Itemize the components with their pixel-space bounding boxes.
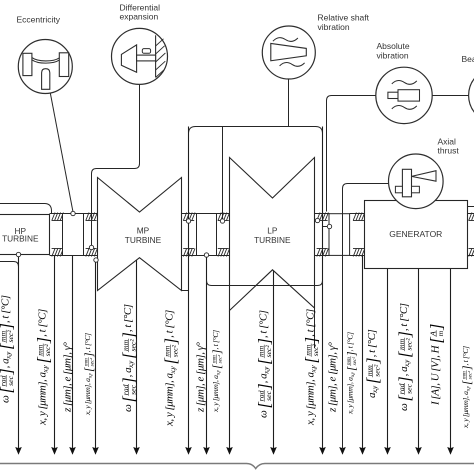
svg-text:Eccentricity: Eccentricity [17, 15, 61, 25]
sensor relative shaft vibration [262, 26, 315, 79]
svg-text:, t [°C]: , t [°C] [211, 330, 220, 350]
svg-text:]: ] [395, 376, 414, 383]
svg-text:z [μm], e [μm], γ°: z [μm], e [μm], γ° [195, 341, 207, 413]
svg-text:]: ] [255, 338, 274, 345]
svg-text:]: ] [0, 323, 16, 330]
MP turbine [98, 178, 182, 291]
svg-text:]: ] [0, 368, 16, 375]
svg-text:x,y: x,y [351, 371, 356, 378]
svg-text:, t [°C]: , t [°C] [258, 310, 270, 338]
wire shaft [350, 213, 365, 215]
svg-text:x,y: x,y [42, 365, 50, 374]
wire [189, 127, 323, 134]
svg-text:TURBINE: TURBINE [125, 235, 162, 245]
svg-text:sec: sec [405, 383, 414, 393]
bearing [86, 213, 98, 221]
node [16, 252, 20, 256]
svg-text:Relative shaft: Relative shaft [318, 12, 370, 22]
svg-text:]: ] [34, 337, 53, 344]
bearing [183, 213, 195, 221]
svg-text:x, y [μmm], a: x, y [μmm], a [211, 375, 220, 413]
svg-text:Bearing: Bearing [462, 54, 474, 64]
wire signal arrow [362, 255, 364, 450]
svg-text:]: ] [395, 331, 414, 338]
svg-text:x,y: x,y [127, 360, 135, 369]
svg-text:sec²: sec² [43, 343, 52, 356]
svg-text:[: [ [211, 364, 223, 369]
svg-text:ω: ω [398, 403, 410, 411]
svg-text:x, y [μmm], a: x, y [μmm], a [305, 372, 317, 426]
wire shaft [468, 213, 474, 215]
svg-text:TURBINE: TURBINE [254, 235, 291, 245]
LP turbine [230, 158, 315, 311]
svg-text:]: ] [161, 338, 180, 345]
node [315, 218, 319, 222]
svg-text:sec²: sec² [264, 345, 273, 358]
sensor differential expansion [112, 28, 168, 84]
svg-text:x, y [μmm], a: x, y [μmm], a [83, 378, 92, 416]
svg-text:]: ] [427, 324, 446, 331]
svg-text:[: [ [83, 367, 95, 372]
svg-text:x,y: x,y [5, 351, 13, 360]
sensor axial thrust [389, 154, 444, 209]
wire signal arrow [188, 127, 190, 451]
wire signal arrow [206, 255, 208, 450]
svg-text:, t [°C]: , t [°C] [164, 310, 176, 338]
svg-text:ω: ω [0, 395, 12, 403]
wire signal arrow [418, 269, 420, 451]
svg-text:, t [°C]: , t [°C] [83, 333, 92, 353]
svg-text:sec²: sec² [467, 370, 473, 379]
svg-text:[: [ [461, 380, 473, 385]
svg-text:x,y: x,y [89, 372, 94, 379]
svg-text:x,y: x,y [467, 385, 472, 392]
wire signal arrow [95, 260, 97, 450]
node [327, 224, 331, 228]
bearing [469, 213, 474, 221]
wire [207, 281, 323, 286]
svg-text:, t [°C]: , t [°C] [398, 303, 410, 331]
svg-text:I [A], U [V], H: I [A], U [V], H [430, 344, 442, 406]
svg-text:sec²: sec² [129, 339, 138, 352]
node [220, 219, 224, 223]
svg-text:vibration: vibration [318, 22, 350, 32]
svg-text:GENERATOR: GENERATOR [389, 229, 442, 239]
svg-text:vibration: vibration [377, 50, 409, 60]
sensor eccentricity [18, 40, 72, 94]
svg-text:x,y: x,y [169, 366, 177, 375]
svg-text:TURBINE: TURBINE [2, 234, 39, 244]
svg-text:x,y: x,y [403, 359, 411, 368]
svg-text:x, y [μmm], a: x, y [μmm], a [164, 373, 176, 427]
svg-text:x, y [μmm], a: x, y [μmm], a [37, 372, 49, 426]
bearing [52, 213, 64, 221]
HP turbine box [0, 215, 50, 255]
svg-text:, t [°C]: , t [°C] [0, 295, 12, 323]
coupling C1 [63, 214, 84, 256]
wire signal arrow [450, 269, 452, 451]
svg-text:sec²: sec² [6, 330, 15, 343]
svg-text:sec²: sec² [311, 343, 320, 356]
brace [0, 464, 474, 469]
wire shaft [217, 213, 230, 215]
wire signal arrow [342, 449, 344, 451]
svg-text:x,y: x,y [310, 365, 318, 374]
wire [182, 290, 189, 292]
svg-text:, t [°C]: , t [°C] [461, 346, 470, 366]
svg-text:, t [°C]: , t [°C] [305, 309, 317, 337]
wire shaft [50, 213, 63, 215]
svg-text:[: [ [346, 366, 358, 371]
wire [222, 127, 224, 220]
wire signal arrow [18, 255, 20, 451]
wire signal arrow [387, 269, 389, 451]
sensor absolute vibration [376, 67, 432, 123]
svg-text:ω: ω [258, 410, 270, 418]
svg-text:sec²: sec² [217, 354, 223, 363]
svg-text:sec: sec [129, 384, 138, 394]
wire signal arrow [72, 255, 74, 450]
svg-text:, t [°C]: , t [°C] [346, 332, 355, 352]
svg-text:sec: sec [264, 390, 273, 400]
coupling C3 [329, 214, 350, 256]
svg-text:ω: ω [122, 404, 134, 412]
svg-text:]: ] [255, 383, 274, 390]
wire [92, 85, 140, 246]
svg-text:Absolute: Absolute [377, 41, 410, 51]
svg-text:sec²: sec² [352, 356, 358, 365]
wire [343, 184, 389, 451]
svg-text:x,y: x,y [263, 366, 271, 375]
svg-text:x, y [μmm], a: x, y [μmm], a [461, 391, 470, 429]
bearing [353, 213, 365, 221]
node [89, 245, 93, 249]
node [186, 219, 190, 223]
svg-text:]: ] [119, 332, 138, 339]
svg-text:z [μm], e [μm], γ°: z [μm], e [μm], γ° [61, 341, 73, 413]
svg-text:]: ] [119, 377, 138, 384]
svg-text:thrust: thrust [438, 146, 460, 156]
wire [327, 96, 376, 212]
svg-text:x,y: x,y [217, 369, 222, 376]
svg-text:, t [°C]: , t [°C] [366, 329, 378, 357]
node [71, 211, 75, 215]
node [94, 258, 98, 262]
svg-text:x,y: x,y [371, 385, 379, 394]
svg-text:expansion: expansion [120, 12, 159, 22]
wire [0, 204, 52, 214]
wire [314, 308, 316, 348]
wire [0, 262, 19, 267]
svg-text:sec²: sec² [170, 344, 179, 357]
wire shaft [84, 213, 98, 215]
bearing [317, 213, 329, 221]
wire signal arrow [273, 270, 275, 450]
generator box [365, 201, 468, 269]
wire [50, 93, 73, 211]
wire shaft [315, 213, 330, 215]
node [204, 253, 208, 257]
svg-text:sec²: sec² [405, 338, 414, 351]
wire [288, 79, 290, 127]
svg-text:sec: sec [6, 375, 15, 385]
svg-text:sec²: sec² [89, 357, 95, 366]
wire signal arrow [54, 255, 56, 450]
svg-text:]: ] [302, 337, 321, 344]
sensor bearing (clipped at edge) [469, 68, 474, 123]
bearing [218, 213, 230, 221]
wire signal arrow [136, 258, 138, 450]
svg-text:, t [°C]: , t [°C] [122, 304, 134, 332]
svg-text:m: m [436, 330, 445, 336]
svg-text:z [μm], e [μm], γ°: z [μm], e [μm], γ° [327, 341, 339, 413]
wire signal arrow [322, 127, 324, 451]
wire [432, 95, 469, 97]
coupling C2 [197, 214, 217, 256]
svg-text:]: ] [363, 357, 382, 364]
wire [323, 226, 328, 228]
signal labels [0, 295, 16, 403]
svg-text:x, y [μmm], a: x, y [μmm], a [346, 377, 355, 415]
wire shaft [182, 213, 197, 215]
wire signal arrow [229, 311, 231, 451]
wire exciter stub [468, 206, 474, 208]
svg-text:sec²: sec² [373, 364, 382, 377]
svg-text:, t [°C]: , t [°C] [37, 309, 49, 337]
